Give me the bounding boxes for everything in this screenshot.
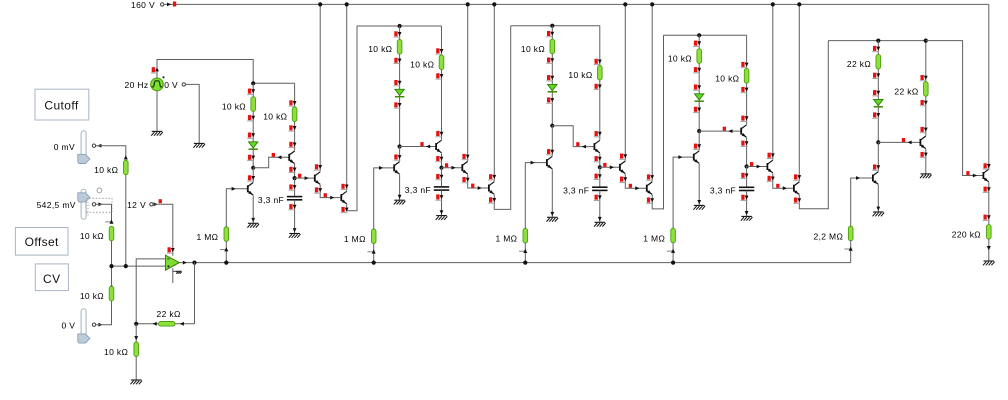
svg-text:22 kΩ: 22 kΩ <box>894 86 918 96</box>
ground output <box>984 260 995 262</box>
current arrow stage3 Q3 collector <box>620 154 623 159</box>
svg-text:0 mV: 0 mV <box>54 142 75 152</box>
current arrow up R cv <box>110 284 114 288</box>
svg-text:10 kΩ: 10 kΩ <box>263 112 287 122</box>
current arrow stage4 right leg 1 <box>741 62 744 67</box>
wire stage3 cap bottom <box>599 190 601 222</box>
current arrow stage2 Q3 emitter <box>462 177 465 182</box>
current arrow stage2 Q4 emitter <box>489 197 492 202</box>
wire feedback to inverting node <box>136 323 158 325</box>
svg-text:3,3 nF: 3,3 nF <box>710 186 736 196</box>
resistor stage5 R1 22 kΩ <box>876 54 881 69</box>
wire stage2 cap bottom <box>441 190 443 216</box>
transistor stage1 Q4 <box>340 194 342 201</box>
ground source <box>152 130 163 132</box>
svg-text:3,3 nF: 3,3 nF <box>563 186 589 196</box>
current arrow stage2 J1-Q2 <box>420 142 423 146</box>
current arrow stage3 right leg 2 <box>595 84 598 89</box>
current arrow stage4 left leg 2 <box>694 67 697 72</box>
current arrow up stage1 bias resistor <box>224 226 228 230</box>
transistor stage2 Q1 <box>393 164 395 171</box>
wire stage1 cap junction to Q3 base <box>295 177 315 179</box>
svg-text:1 MΩ: 1 MΩ <box>344 234 366 244</box>
diode LED stage4 <box>695 94 704 100</box>
current arrow stage2 Q1 emitter to ground <box>398 195 402 199</box>
current arrow stage1 right leg 2 <box>289 125 292 130</box>
current arrow stage5 right leg 3 <box>921 127 924 132</box>
wire stage5 top to output follower base <box>926 41 984 176</box>
node stage3 ladder top <box>550 24 554 28</box>
wire cutoff terminal to R cutoff <box>96 146 126 158</box>
wire output follower collector <box>988 166 990 169</box>
wire stage3 cap top <box>599 167 601 187</box>
terminal 160V supply <box>161 3 164 6</box>
wire stage4 left leg <box>698 35 700 131</box>
resistor R cutoff 10 kΩ <box>124 160 129 174</box>
junction summing node <box>109 264 113 268</box>
svg-text:1 MΩ: 1 MΩ <box>196 232 218 242</box>
wire stage2 Q2 emitter <box>441 153 443 168</box>
current arrow stage4 Q3-Q4 <box>776 184 779 188</box>
current arrow stage2 below cap <box>436 194 439 199</box>
wire opamp output to bus <box>179 262 850 264</box>
node stage5 ladder top right <box>924 39 928 43</box>
current arrow stage3 J1-Q2 <box>576 142 579 146</box>
svg-text:20 Hz: 20 Hz <box>125 80 149 90</box>
wire stage4 Q3 emitter to Q4 base <box>773 173 794 188</box>
wire stage1 Q2 emitter <box>294 164 296 178</box>
resistor stage3 bias 1 MΩ <box>523 228 528 243</box>
current arrow stage2 left leg 3 <box>394 80 397 85</box>
selection marker circle <box>97 188 102 193</box>
current arrow stage1 to Q3 <box>298 174 301 178</box>
resistor stage2 R1 10 kΩ <box>397 40 402 55</box>
resistor stage1 R1 10 kΩ <box>251 97 256 112</box>
current arrow stage3 Q1 base <box>531 161 535 165</box>
resistor R out 220 kΩ <box>987 225 992 240</box>
ground stage2 cap <box>436 215 447 217</box>
current arrow stage4 left leg 1 <box>694 41 697 46</box>
node stage1 cap junction <box>293 176 297 180</box>
wire stage3 Q1 emitter <box>551 169 553 217</box>
resistor stage2 bias 1 MΩ <box>371 229 376 244</box>
ground opamp V- <box>173 270 177 272</box>
resistor stage2 R2 10 kΩ <box>439 55 444 70</box>
diode LED stage3 <box>548 84 557 90</box>
wire stage3 bias resistor to Q1 base <box>525 163 547 229</box>
transistor stage2 Q3 <box>461 164 463 171</box>
current arrow stage5 Q1 emitter to ground <box>876 207 880 211</box>
current arrow stage3 Q2 emitter <box>595 156 598 161</box>
current arrow stage1 left leg 3 <box>248 133 251 138</box>
ground stage3 cap <box>595 221 606 223</box>
node rail tap stage2 Q4 <box>492 2 496 6</box>
wire stage3 Q2 emitter <box>599 153 601 167</box>
junction inverting node <box>134 322 138 326</box>
current arrow stage4 left leg 3 <box>694 85 697 90</box>
capacitor stage1 3,3 nF <box>287 196 302 198</box>
current arrow stage2 Q2 emitter <box>436 156 439 161</box>
junction opamp output feedback tap <box>192 261 196 265</box>
current arrow stage2 Q3 collector <box>462 154 465 159</box>
svg-text:0 V: 0 V <box>164 80 178 90</box>
current arrow rail <box>167 3 171 7</box>
wire stage1 ladder top <box>253 82 294 84</box>
current arrow up stage4 bias resistor <box>671 227 675 231</box>
resistor stage3 R1 10 kΩ <box>550 39 555 54</box>
wire opamp V- pin <box>172 268 174 283</box>
diode LED stage2 <box>395 89 404 95</box>
current arrow stage3 below cap <box>595 195 598 200</box>
current arrow output collector <box>984 163 987 168</box>
svg-text:10 kΩ: 10 kΩ <box>410 60 434 70</box>
current arrow source output <box>152 67 155 72</box>
wire stage3 ladder top <box>511 25 600 27</box>
svg-text:10 kΩ: 10 kΩ <box>568 70 592 80</box>
current arrow stage2 to Q3 <box>445 163 448 167</box>
resistor stage4 R2 10 kΩ <box>744 69 749 84</box>
junction bus stage4 <box>671 261 675 265</box>
current arrow stage2 Q4 collector <box>489 174 492 179</box>
wire stage1 Q4 emitter link to next stage <box>347 26 357 211</box>
wire stage4 cap top <box>746 167 748 188</box>
current arrow up stage2 bias resistor <box>372 228 376 232</box>
svg-text:CV: CV <box>43 272 60 286</box>
junction bus stage1 <box>224 261 228 265</box>
transistor stage3 Q1 <box>546 159 548 166</box>
junction cutoff branch <box>124 264 128 268</box>
wire stage5 left leg <box>877 41 879 143</box>
node stage4 J1 <box>697 129 701 133</box>
terminal 12V supply <box>150 203 153 206</box>
current arrow stage3 Q3-Q4 <box>629 184 632 188</box>
current arrow stage5 left leg 4 <box>873 112 876 117</box>
wire stage3 J1 to Q2 base <box>552 126 594 147</box>
wire stage5 right leg <box>925 41 927 136</box>
current arrow stage4 Q3 collector <box>768 153 771 158</box>
current arrow stage1 right leg 1 <box>289 100 292 105</box>
current arrow into cutoff terminal <box>97 144 101 148</box>
current arrow opamp output <box>183 261 187 265</box>
ground mini opamp <box>176 270 182 272</box>
current arrow stage2 left leg 1 <box>394 31 397 36</box>
wire stage1 Q3 collector <box>319 4 321 171</box>
svg-text:3,3 nF: 3,3 nF <box>405 185 431 195</box>
transistor stage3 Q3 <box>619 164 621 171</box>
wire stage1 Q1 collector <box>252 168 254 182</box>
zero current tick offset chain <box>105 221 112 223</box>
current arrow stage2 right leg 1 <box>436 48 439 53</box>
potentiometer Cutoff slider 0 mV <box>81 131 86 157</box>
current arrow stage4 Q3 emitter <box>768 176 771 181</box>
zero current tick stage5 bias <box>844 248 851 250</box>
svg-text:542,5 mV: 542,5 mV <box>37 200 76 210</box>
junction bus stage2 <box>372 261 376 265</box>
svg-text:10 kΩ: 10 kΩ <box>668 54 692 64</box>
terminal 0V node <box>182 83 185 86</box>
current arrow above R out <box>984 215 987 220</box>
node stage5 ladder top <box>876 39 880 43</box>
svg-text:220 kΩ: 220 kΩ <box>952 230 981 240</box>
transistor stage1 Q2 <box>288 154 290 161</box>
node rail tap stage4 Q3 <box>771 2 775 6</box>
current arrow stage1 Q2 emitter <box>289 167 292 172</box>
svg-text:160 V: 160 V <box>131 0 155 10</box>
current arrow stage1 below cap <box>289 204 292 209</box>
current arrow stage1 left leg 4 <box>248 155 251 160</box>
wire stage3 cap junction to Q3 base <box>600 166 620 168</box>
wire stage5 ladder top <box>828 40 926 42</box>
wire feedback bottom right <box>175 323 195 325</box>
wire stage2 Q4 collector <box>493 4 495 181</box>
transistor stage3 Q4 <box>646 185 648 192</box>
ground stage2 Q1 <box>394 199 405 201</box>
node stage3 J1 <box>550 124 554 128</box>
transistor Q output follower <box>982 172 984 179</box>
current arrow stage3 left leg 2 <box>547 58 550 63</box>
svg-text:2,2 MΩ: 2,2 MΩ <box>813 231 843 241</box>
resistor stage1 bias 1 MΩ <box>224 227 229 242</box>
wire R offset to summing node <box>111 241 113 266</box>
current arrow offset terminal <box>98 202 102 206</box>
current arrow stage5 Q1 base <box>856 176 860 180</box>
wire offset terminal to R offset <box>96 204 112 222</box>
current arrow stage1 cap wire <box>289 184 292 189</box>
transistor stage2 Q4 <box>488 185 490 192</box>
wire stage1 bias resistor to Q1 base <box>226 189 248 227</box>
current arrow stage2 Q3-Q4 <box>471 184 474 188</box>
current arrow stage2 cap wire <box>436 174 439 179</box>
current arrow feedback right <box>180 322 184 326</box>
current arrow stage4 right leg 3 <box>741 116 744 121</box>
svg-text:Cutoff: Cutoff <box>44 99 78 113</box>
wire stage3 right leg <box>599 26 601 140</box>
current arrow stage2 Q1 base <box>379 166 383 170</box>
resistor stage3 R2 10 kΩ <box>598 66 603 81</box>
current arrow stage5 J1-Q2 <box>902 138 905 142</box>
wire feedback down <box>194 263 196 324</box>
ground stage4 Q1 <box>694 204 705 206</box>
current arrow stage3 Q4 collector <box>647 174 650 179</box>
diode LED stage5 <box>874 99 883 105</box>
resistor stage1 R2 10 kΩ <box>292 107 297 122</box>
wire stage2 bias resistor to Q1 base <box>374 168 395 229</box>
current arrow stage4 Q1 base <box>678 155 682 159</box>
voltage source V1 20 Hz <box>151 78 164 91</box>
terminal offset CV <box>92 203 95 206</box>
ground stage5 emitter <box>921 173 932 175</box>
svg-text:10 kΩ: 10 kΩ <box>94 165 118 175</box>
wire stage1 Q4 collector <box>346 4 348 191</box>
current arrow stage5 right leg 1 <box>921 75 924 80</box>
svg-text:10 kΩ: 10 kΩ <box>521 44 545 54</box>
resistor R offset 10 kΩ <box>109 226 114 240</box>
node rail tap stage2 Q3 <box>466 2 470 6</box>
potentiometer CV slider 0 V <box>81 309 86 336</box>
wire stage4 ladder top <box>664 34 747 36</box>
current arrow stage1 J1-Q2 <box>272 153 275 157</box>
transistor stage5 Q1 <box>872 175 874 182</box>
wire stage2 Q4 emitter link to next stage <box>494 26 510 210</box>
transistor stage1 Q1 <box>247 185 249 192</box>
current arrow CV terminal <box>98 323 102 327</box>
transistor stage1 Q3 <box>314 175 316 182</box>
current arrow stage4 cap wire <box>741 173 744 178</box>
wire stage3 Q1 collector <box>551 126 553 156</box>
wire stage5 bias resistor to bus <box>850 241 852 263</box>
current arrow stage1 left leg 2 <box>248 115 251 120</box>
svg-text:10 kΩ: 10 kΩ <box>80 291 104 301</box>
transistor stage4 Q3 <box>766 163 768 170</box>
current arrow stage3 left leg 4 <box>547 97 550 102</box>
current arrow feedback left <box>153 322 157 326</box>
wire stage3 Q3 collector <box>624 4 626 160</box>
current arrow stage2 right leg 2 <box>436 73 439 78</box>
current arrow up stage5 bias resistor <box>849 225 853 229</box>
svg-text:10 kΩ: 10 kΩ <box>222 102 246 112</box>
current arrow stage5 right leg 2 <box>921 100 924 105</box>
transistor stage2 Q2 <box>435 143 437 150</box>
current arrow stage3 Q4 emitter <box>647 198 650 203</box>
wire stage5 Q1 emitter <box>877 185 879 212</box>
potentiometer Offset slider 542,5 mV <box>81 189 86 219</box>
diode LED stage1 <box>249 142 258 148</box>
wire stage2 bias resistor to bus <box>373 244 375 263</box>
node rail tap stage4 Q4 <box>797 2 801 6</box>
wire R out to ground <box>988 239 990 261</box>
wire stage4 Q3 collector <box>772 4 774 159</box>
node stage2 ladder top <box>398 24 402 28</box>
current arrow opamp supply <box>168 247 171 252</box>
wire stage4 right leg <box>746 35 748 124</box>
resistor stage5 R2 22 kΩ <box>924 82 929 97</box>
node stage2 J1 <box>398 144 402 148</box>
wire stage2 right leg <box>441 26 443 140</box>
current arrow stage1 right leg 3 <box>289 142 292 147</box>
current arrow stage1 Q3 collector <box>315 164 318 169</box>
wire R gain to ground <box>135 357 137 381</box>
capacitor stage3 3,3 nF <box>592 186 607 188</box>
wire stage5 Q2 emitter to ground <box>925 149 927 174</box>
current arrow up R cutoff <box>124 155 128 159</box>
op-amp U1 <box>166 255 180 270</box>
label box CV <box>35 264 68 291</box>
current arrow below R out <box>987 246 991 250</box>
wire stage2 Q1 emitter <box>399 175 401 201</box>
wire source bottom to ground <box>156 91 158 132</box>
current arrow stage3 Q1 collector <box>547 149 550 154</box>
current arrow stage1 Q1 base <box>232 187 236 191</box>
node stage1 ladder top <box>251 81 255 85</box>
node stage4 cap junction <box>745 164 749 168</box>
current arrow stage1 Q4 emitter <box>341 207 344 212</box>
label box Cutoff <box>35 89 89 120</box>
current arrow stage4 above cap ground <box>745 211 749 215</box>
current arrow stage3 Q1 emitter to ground <box>550 212 554 216</box>
transistor stage4 Q1 <box>693 154 695 161</box>
svg-text:10 kΩ: 10 kΩ <box>368 44 392 54</box>
wire stage1 right leg <box>294 83 296 150</box>
wire R cutoff to opamp noninverting node <box>125 175 127 266</box>
slider scale ticks <box>87 202 89 204</box>
zero current tick stage4 bias <box>667 250 674 252</box>
wire stage1 left leg <box>252 83 254 168</box>
node rail tap stage3 Q3 <box>623 2 627 6</box>
wire stage3 Q4 collector <box>651 4 653 181</box>
wire stage4 Q2 emitter <box>746 138 748 167</box>
svg-text:10 kΩ: 10 kΩ <box>104 347 128 357</box>
transistor stage3 Q2 <box>593 143 595 150</box>
transistor stage4 Q4 <box>793 185 795 192</box>
transistor stage5 Q2 <box>919 139 921 146</box>
current arrow stage3 right leg 3 <box>595 131 598 136</box>
ground opamp gain leg <box>131 379 142 381</box>
current arrow stage3 right leg 1 <box>595 59 598 64</box>
wire 12V to opamp V+ <box>153 204 173 255</box>
resistor R gain 10 kΩ <box>134 342 139 357</box>
current arrow stage4 left leg 4 <box>694 107 697 112</box>
wire CV terminal to R cv <box>96 301 112 325</box>
svg-text:12 V: 12 V <box>127 200 146 210</box>
wire stage1 Q1 emitter <box>252 196 254 224</box>
node rail tap stage1 Q3 <box>318 2 322 6</box>
current arrow stage1 Q1 collector <box>248 175 251 180</box>
current arrow stage1 Q4 collector <box>341 184 344 189</box>
svg-text:10 kΩ: 10 kΩ <box>715 73 739 83</box>
wire stage4 bias resistor to Q1 base <box>673 157 694 228</box>
wire stage1 Q3 emitter to Q4 base <box>320 185 341 198</box>
current arrow stage4 Q4 collector <box>794 174 797 179</box>
current arrow stage5 left leg 3 <box>873 90 876 95</box>
svg-text:3,3 nF: 3,3 nF <box>258 195 284 205</box>
current arrow stage2 left leg 2 <box>394 58 397 63</box>
svg-text:22 kΩ: 22 kΩ <box>157 309 181 319</box>
zero current tick stage3 bias <box>519 250 526 252</box>
wire stage1 bias resistor to bus <box>225 241 227 262</box>
wire 160V rail right drop to output transistor <box>988 4 990 168</box>
current arrow stage4 Q1 collector <box>694 144 697 149</box>
wire stage3 bias resistor to bus <box>524 243 526 263</box>
current arrow stage3 cap wire <box>595 174 598 179</box>
ground stage1 Q1 <box>248 222 259 224</box>
current arrow stage1 Q3-Q4 <box>324 193 327 197</box>
current arrow stage4 Q1 emitter to ground <box>697 200 701 204</box>
resistor stage4 R1 10 kΩ <box>697 49 702 64</box>
wire stage2 cap junction to Q3 base <box>442 167 463 169</box>
wire stage2 J1 to Q2 base <box>400 146 437 148</box>
wire 0V terminal to ground <box>186 84 200 143</box>
wire stage3 Q4 emitter link to next stage <box>652 35 663 209</box>
resistor stage5 bias 2,2 MΩ <box>848 226 853 241</box>
current arrow stage5 left leg 2 <box>873 73 876 78</box>
current arrow stage3 to Q3 <box>603 163 606 167</box>
terminal CV input <box>92 323 95 326</box>
wire stage4 Q1 emitter <box>698 164 700 206</box>
svg-text:10 kΩ: 10 kΩ <box>80 231 104 241</box>
ground 0V return <box>194 142 205 144</box>
current arrow stage2 above cap ground <box>440 210 444 214</box>
node stage3 cap junction <box>598 165 602 169</box>
selection dotted box <box>86 198 112 212</box>
wire stage3 Q3 emitter to Q4 base <box>625 174 647 188</box>
wire R cv to summing node <box>111 266 113 286</box>
svg-text:0 V: 0 V <box>61 321 75 331</box>
current arrow stage5 left leg 1 <box>873 46 876 51</box>
current arrow stage4 below cap <box>741 195 744 200</box>
ground stage5 Q1 <box>873 211 884 213</box>
current arrow stage2 left leg 4 <box>394 102 397 107</box>
current arrow stage1 left leg 1 <box>248 89 251 94</box>
